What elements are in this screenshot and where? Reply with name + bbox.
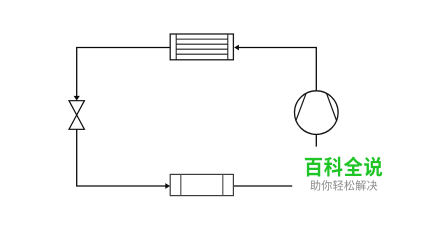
expansion valve upper triangle: [69, 101, 84, 115]
expansion valve lower triangle: [69, 115, 84, 129]
condenser tube line 2: [176, 43, 228, 45]
watermark title char 说: [364, 157, 382, 177]
condenser tube line 3: [176, 48, 228, 50]
wire: top-left corner run (condenser left to valve arrow): [77, 48, 171, 97]
compressor circle: [295, 91, 339, 135]
watermark subtitle char 助: [310, 180, 320, 191]
wire: bottom-right corner run (evaporator right to compressor bottom, partly covered by watermark): [233, 134, 316, 186]
watermark subtitle char 松: [344, 180, 354, 191]
arrowhead into evaporator (right): [165, 183, 170, 189]
watermark title char 科: [324, 157, 342, 177]
evaporator right inner line: [222, 174, 224, 195]
wire: top-right corner run (compressor top to condenser arrow): [239, 48, 317, 91]
evaporator (bottom receiver) outer box: [170, 174, 233, 195]
condenser right end-cap line: [227, 34, 229, 60]
condenser tube line 1: [176, 38, 228, 40]
condenser (top heat exchanger) outer box: [170, 34, 233, 60]
watermark title char 百: [305, 158, 322, 177]
arrowhead into condenser (left): [234, 45, 239, 51]
condenser tube line 4: [176, 53, 228, 55]
watermark subtitle char 你: [321, 180, 332, 191]
watermark title char 全: [344, 157, 363, 176]
wire: bottom-left corner run (valve bottom to evaporator arrow): [77, 129, 166, 186]
watermark white backdrop covering wire corner: [292, 147, 423, 223]
evaporator left inner line: [180, 174, 182, 195]
watermark subtitle char 决: [367, 180, 377, 191]
compressor left vane chord: [296, 94, 306, 121]
watermark subtitle char 解: [356, 180, 366, 191]
compressor right vane chord: [327, 94, 337, 121]
arrowhead into valve (down): [74, 96, 80, 101]
watermark subtitle char 轻: [333, 180, 343, 191]
condenser left end-cap line: [175, 34, 177, 60]
